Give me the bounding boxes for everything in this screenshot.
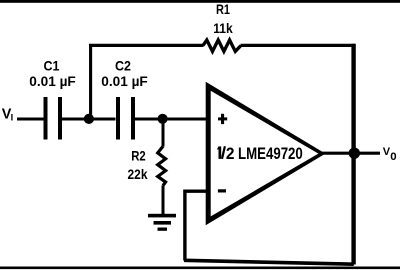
svg-text:0: 0 — [390, 151, 396, 163]
svg-text:R2: R2 — [131, 148, 146, 164]
svg-text:I: I — [11, 113, 14, 123]
svg-text:11k: 11k — [213, 20, 233, 36]
svg-text:LME49720: LME49720 — [238, 144, 303, 163]
svg-text:2: 2 — [226, 144, 235, 163]
svg-text:C1: C1 — [44, 58, 60, 74]
svg-text:C2: C2 — [115, 58, 131, 74]
svg-text:R1: R1 — [216, 1, 230, 17]
svg-text:22k: 22k — [128, 166, 148, 182]
svg-text:0.01 µF: 0.01 µF — [101, 73, 148, 89]
svg-text:0.01 µF: 0.01 µF — [29, 73, 76, 89]
